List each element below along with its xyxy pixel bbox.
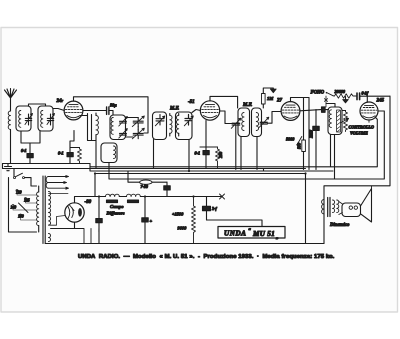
capacitor C16 0.1f [357,93,390,100]
power switch SW1 [14,169,37,187]
junction dot bus [304,172,306,174]
padder capacitor C8 [132,116,144,127]
svg-text:M.F.: M.F. [169,107,179,112]
resistor R6 wiper zigzag [344,111,348,132]
svg-text:2-f: 2-f [211,206,217,211]
rectifier heater winding S3 [49,229,85,244]
wires oscillator caps [126,118,139,138]
svg-text:UNDA: UNDA [224,230,246,238]
capacitor C17 2MF [313,110,319,170]
wire T1 bottom to bypass node [21,131,40,143]
wire T3 to bus right [188,140,190,172]
power transformer T5 primary [37,186,39,232]
V2 top cap wire [210,96,238,108]
svg-text:0·1: 0·1 [21,148,27,153]
IF transformer T3 secondary winding [176,114,178,137]
capacitor C19 [164,182,170,196]
trimmer capacitor C7 [119,129,128,139]
variable capacitor C14 [259,117,269,127]
capacitor C15 fono coupling [322,107,329,112]
svg-text:Dinamico: Dinamico [329,223,350,228]
svg-text:MU 51: MU 51 [252,230,275,238]
svg-text:20000: 20000 [334,89,346,94]
cathode network node V1 [70,131,80,148]
svg-text:“: “ [248,228,251,234]
svg-text:„: „ [276,235,279,241]
wire T1 to T2 top [29,104,46,106]
variable capacitor C13 [231,118,241,169]
fuse F1 [128,171,167,184]
V1 top cap wire to oscillator [74,97,149,133]
ground symbol top [263,88,276,94]
main bus wire 3 [95,174,306,197]
wire T4 right box to bus [256,137,258,170]
HV winding S2 [49,192,69,226]
IF transformer T4 right box [252,108,262,137]
svg-text:110: 110 [16,191,22,195]
svg-text:0·1: 0·1 [58,151,64,156]
antenna [5,89,17,111]
capacitor C20 [142,197,148,244]
mains voltage selector [9,178,37,232]
tube V4 type 245 [360,102,378,122]
svg-text:27: 27 [276,99,283,104]
V4 grid stub [366,96,368,102]
junction dot bus3 [94,172,96,174]
svg-text:250: 250 [218,151,223,159]
ground bus RF section [3,163,91,165]
wire T3 to bus left [153,140,155,169]
svg-text:+1500: +1500 [172,212,184,217]
padder capacitor C9 [132,128,144,139]
svg-text:50µ: 50µ [110,103,117,108]
tube V3 type 27 [281,102,300,121]
V1 plate wire [83,110,106,112]
svg-text:9000: 9000 [178,226,188,231]
resistor R4 500 [302,140,306,170]
coupling capacitor C5 [107,107,113,115]
resistor R3 1M [262,94,266,109]
wire volume top [326,104,346,111]
capacitor C4 0.1 [67,148,73,164]
svg-text:FONO: FONO [311,91,325,96]
V5 cathode wire up to HV line [75,197,100,229]
svg-text:1M: 1M [267,96,274,101]
oscillator box L4 [110,115,126,140]
electrolytic capacitor C18 [96,197,102,244]
resistor R5 20000 [333,94,356,98]
svg-text:Campo: Campo [110,204,124,209]
capacitor C21 [203,197,263,227]
svg-text:VOLUME: VOLUME [350,131,368,136]
capacitor C3 0.1 [27,143,33,164]
junction dot [188,170,190,172]
svg-text:UNDA RADIO. — Modello « M.: UNDA RADIO. — Modello « M. U. 51 ». - Pr… [78,254,335,260]
svg-text:-80: -80 [85,200,92,205]
wire B volume slider to V4 plate [109,111,384,179]
V1 screen wires down [81,114,97,141]
resistor R7 divider [192,197,196,244]
wire A volume bottom to V4 cathode [90,118,377,167]
ground symbol left [5,164,12,171]
wire T3 to V2 grid [192,110,201,113]
resistor R2 [216,147,220,169]
wire antenna coil to ground bus [10,130,12,164]
wire bus3 to bottom bus [305,174,307,244]
variable capacitor C2 [47,114,55,126]
svg-text:-51: -51 [188,100,195,105]
switch SW2 [296,137,301,146]
wire T4 left box to bus [240,137,242,170]
svg-text:2MF: 2MF [309,129,314,139]
switch SW3 fono [326,92,334,96]
variable capacitor C11 [184,115,193,126]
wire T2 to V1 grid [53,109,64,111]
svg-text:125: 125 [24,199,30,203]
volume control P1 box [328,107,342,135]
variable capacitor C1 [25,114,33,126]
tuned transformer box T2 [38,106,53,131]
IF transformer T4 left box [238,108,250,137]
wire V5 filament verticals [91,229,99,244]
voice coil box speaker [339,202,361,217]
main bus wire 1 [3,164,306,169]
tube V2 type 51 [200,101,219,120]
ground symbol fono [343,97,349,104]
bus jog [263,169,265,172]
svg-text:140: 140 [11,206,17,210]
V3 plate wire to fono line [300,110,321,111]
IF transformer T3 primary winding [170,114,172,137]
bottom bus wire [45,243,324,245]
junction dot HV line [98,195,100,197]
speaker horn [361,186,372,222]
capacitor C12 0.1 [203,147,209,169]
UNDA MU51 label box [218,227,285,241]
power transformer T5 core [43,176,45,244]
wire tickler to bus [108,163,110,169]
V2 cathode network [200,121,218,148]
svg-text:+: + [150,219,153,224]
V2 plate wire [220,111,232,124]
field coil L5 [99,194,222,202]
node X fono [324,96,327,107]
heater winding S1 with arrows [46,176,68,190]
svg-text:CONTROLLO: CONTROLLO [349,125,374,130]
svg-text:500: 500 [297,143,302,149]
resistor R1 cathode [78,148,82,164]
tube V1 type 24 [64,101,83,120]
IF transformer T3 right box [176,112,193,140]
svg-text:160: 160 [18,215,24,219]
oscillator coil L2 [96,113,98,169]
svg-text:0·1: 0·1 [195,151,201,156]
svg-text:5000: 5000 [286,137,295,142]
output transformer T6 [322,186,339,244]
svg-text:M.F.: M.F. [242,103,252,108]
IF transformer T3 left box [153,112,167,140]
wiper arrow P1 [341,118,349,122]
variable capacitor C10 [155,115,165,126]
wire C14 to V3 grid [268,112,282,124]
tickler coil box L3 [101,143,117,163]
svg-text:0·1f: 0·1f [362,91,369,96]
node plus end of HV line [220,194,225,199]
wire C grid line to speaker top [324,96,390,186]
svg-text:7-50: 7-50 [141,184,148,189]
tuned transformer box T1 [16,106,31,131]
svg-text:Diffusore: Diffusore [106,211,125,216]
svg-text:245: 245 [376,99,385,104]
main bus wire 2 [90,164,333,172]
trimmer capacitor C6 [119,117,128,127]
antenna coil L1 [8,110,10,129]
tube V5 rectifier 80 [65,203,84,222]
V3 top wires [291,98,310,170]
